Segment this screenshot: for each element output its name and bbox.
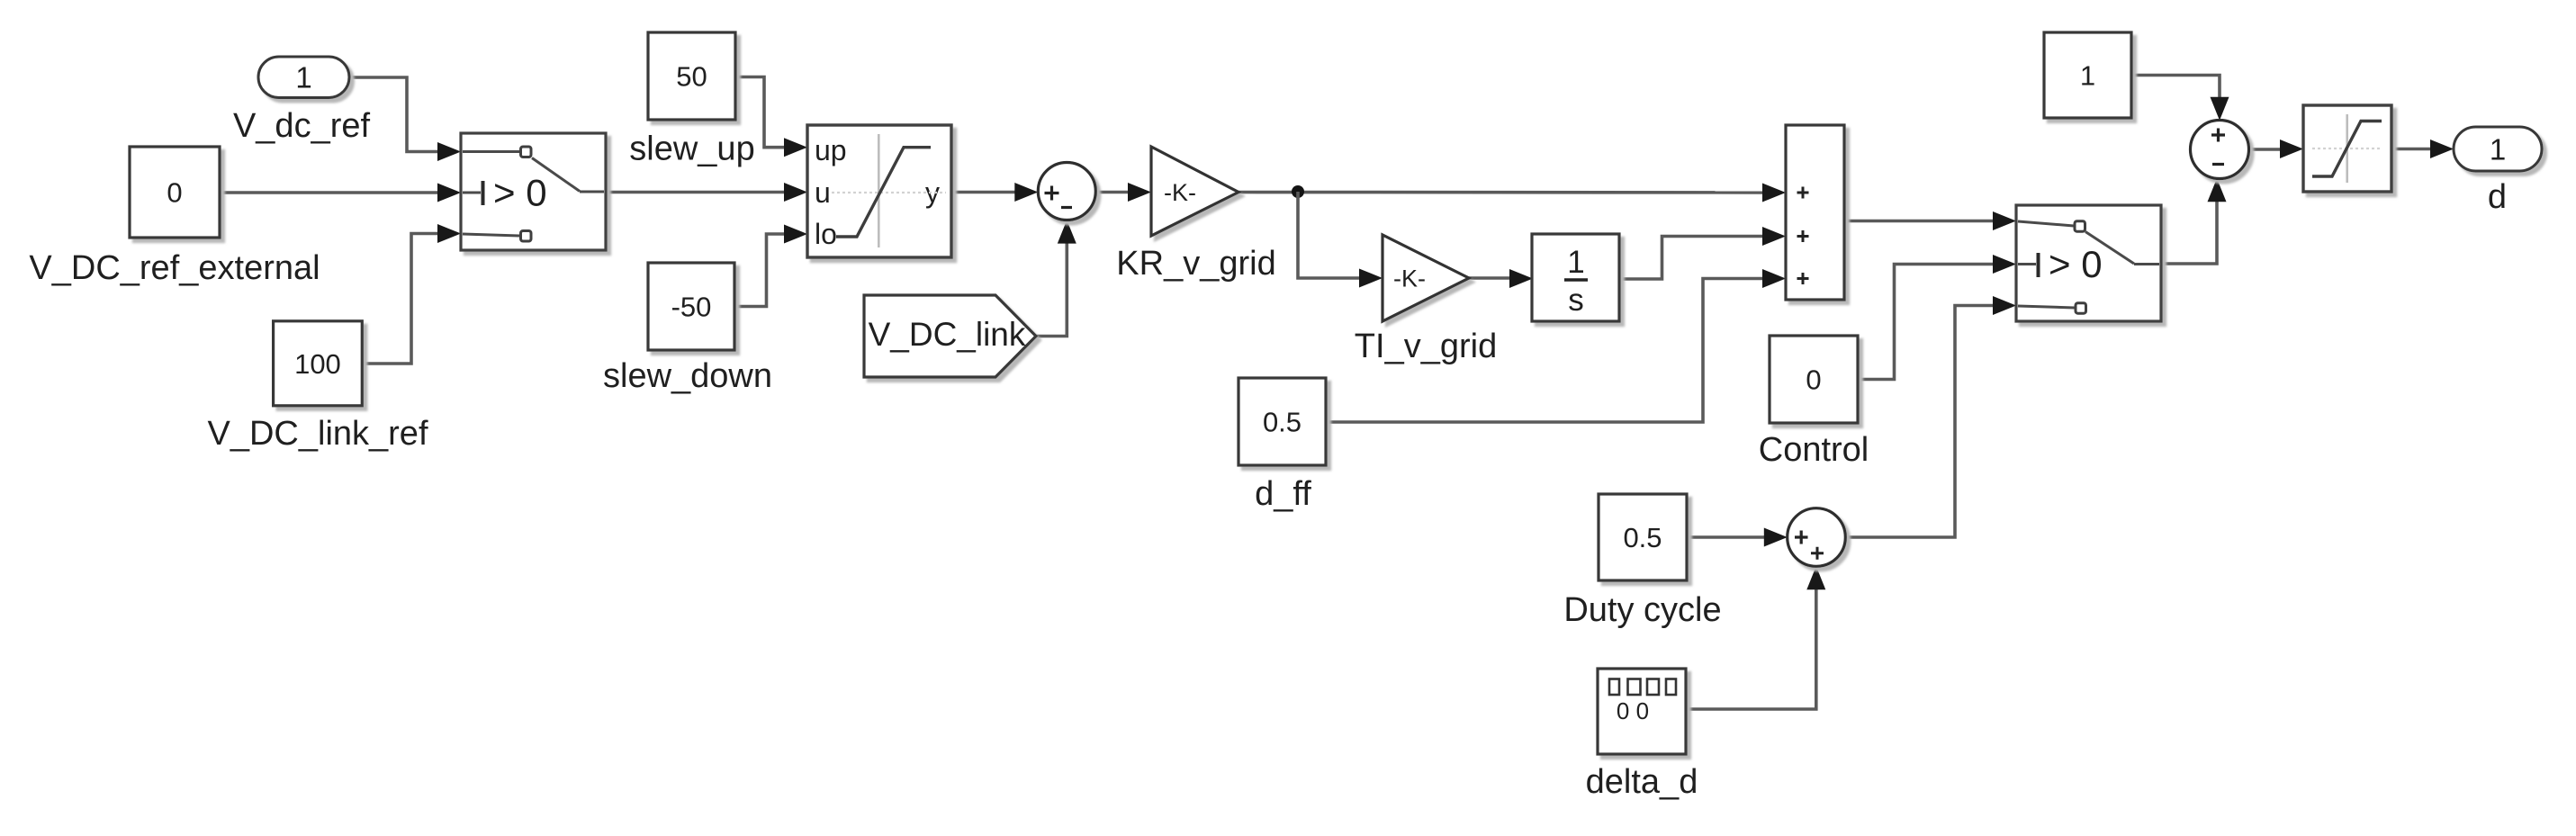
- wire Sum1 to Gain KR_v_grid: [1095, 183, 1151, 202]
- svg-text:-K-: -K-: [1164, 179, 1196, 206]
- wire Sum3 to Saturation: [2248, 139, 2303, 158]
- wire Duty cycle to Sum4: [1687, 528, 1788, 547]
- wire Integrator to Add1 in2: [1618, 227, 1786, 279]
- svg-text:up: up: [815, 134, 847, 166]
- integrator 1/s: [1532, 234, 1619, 321]
- saturation block: [2303, 105, 2391, 192]
- sum Sum3 (+ -): [2191, 121, 2249, 179]
- svg-text:d_ff: d_ff: [1255, 475, 1311, 513]
- svg-text:0: 0: [1806, 364, 1821, 396]
- svg-text:V_DC_link: V_DC_link: [869, 316, 1026, 353]
- svg-text:slew_down: slew_down: [603, 357, 772, 395]
- outport 1 d: [2454, 127, 2542, 171]
- switch Switch2: [2016, 205, 2161, 321]
- wire Gain KR_v_grid to Add1 in1: [1238, 184, 1786, 202]
- constant slew_down: [648, 263, 734, 350]
- svg-text:> 0: > 0: [493, 172, 547, 214]
- svg-text:u: u: [815, 176, 831, 209]
- wire V_DC_link_ref to Switch1 in3: [361, 224, 461, 364]
- wire Gain TI_v_grid to Integrator: [1469, 269, 1533, 288]
- wire branch to Gain TI_v_grid: [1298, 192, 1383, 288]
- svg-text:y: y: [925, 176, 940, 209]
- svg-text:> 0: > 0: [2049, 243, 2103, 285]
- wire RateLimiter y to Sum1: [951, 183, 1038, 202]
- constant 1 (upper right): [2044, 32, 2131, 118]
- constant Duty cycle: [1599, 494, 1687, 580]
- constant d_ff: [1238, 378, 1326, 465]
- svg-text:0: 0: [167, 177, 182, 209]
- svg-text:s: s: [1568, 283, 1584, 318]
- svg-text:-50: -50: [671, 292, 712, 323]
- wire d_ff to Add1 in3: [1326, 269, 1786, 422]
- wire Switch1 to RateLimiter u: [606, 183, 807, 202]
- wire Sum4 to Switch2 in3: [1846, 296, 2017, 537]
- wire Switch2 to Sum3 minus: [2161, 178, 2227, 264]
- inport 1 V_dc_ref: [258, 57, 349, 98]
- wire slew_down to RateLimiter lo: [734, 225, 807, 307]
- signal builder delta_d: [1598, 669, 1686, 754]
- wire Control to Switch2 in2: [1858, 255, 2016, 380]
- rate limiter (dynamic saturation) block: [807, 125, 951, 257]
- svg-text:1: 1: [2490, 132, 2506, 166]
- svg-text:0.5: 0.5: [1623, 522, 1662, 553]
- svg-text:lo: lo: [815, 218, 837, 250]
- From tag V_DC_link: [864, 295, 1036, 377]
- svg-text:0.5: 0.5: [1263, 407, 1302, 438]
- svg-text:slew_up: slew_up: [629, 130, 754, 168]
- svg-text:TI_v_grid: TI_v_grid: [1355, 328, 1497, 365]
- svg-text:delta_d: delta_d: [1586, 763, 1698, 801]
- svg-text:Duty cycle: Duty cycle: [1563, 591, 1721, 629]
- svg-text:50: 50: [676, 61, 707, 93]
- switch Switch1: [461, 133, 606, 250]
- wire V_DC_ref_external to Switch1 in2: [220, 184, 461, 202]
- svg-text:1: 1: [295, 61, 311, 94]
- wire constant 1 to Sum3 plus: [2131, 76, 2229, 121]
- sum Add1 (+ + +): [1786, 125, 1844, 300]
- svg-text:V_DC_ref_external: V_DC_ref_external: [29, 249, 320, 287]
- constant V_DC_link_ref: [274, 321, 363, 406]
- svg-text:d: d: [2488, 178, 2507, 216]
- svg-text:1: 1: [1567, 245, 1584, 280]
- constant slew_up: [648, 32, 735, 120]
- constant V_DC_ref_external: [130, 147, 220, 238]
- sum Sum1 (+ -): [1038, 163, 1095, 220]
- svg-text:V_DC_link_ref: V_DC_link_ref: [208, 415, 428, 453]
- wire Add1 to Switch2 in1: [1844, 211, 2016, 230]
- svg-text:1: 1: [2080, 60, 2095, 92]
- wire V_dc_ref to Switch1 in1: [349, 77, 461, 161]
- svg-text:V_dc_ref: V_dc_ref: [233, 107, 371, 145]
- gain TI_v_grid: [1383, 235, 1469, 321]
- svg-text:KR_v_grid: KR_v_grid: [1116, 245, 1275, 283]
- junction node after KR_v_grid: [1292, 185, 1304, 198]
- svg-text:-K-: -K-: [1393, 265, 1426, 292]
- constant Control: [1770, 336, 1858, 423]
- svg-text:Control: Control: [1759, 431, 1869, 469]
- wire V_DC_link to Sum1 minus: [1035, 220, 1076, 337]
- gain KR_v_grid: [1151, 147, 1238, 236]
- wire delta_d to Sum4 plus: [1686, 566, 1825, 709]
- svg-text:0 0: 0 0: [1617, 697, 1649, 724]
- sum Sum4 (+ +): [1788, 508, 1846, 567]
- svg-text:100: 100: [294, 348, 341, 380]
- wire slew_up to RateLimiter up: [735, 77, 807, 157]
- wire Saturation to outport d: [2391, 139, 2454, 158]
